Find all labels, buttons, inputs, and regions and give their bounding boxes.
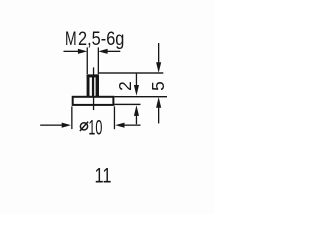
svg-text:2: 2 [115,81,135,91]
diameter dimension right tail [124,125,141,126]
dimension 5 upper arrowhead pointing down [156,62,161,73]
disc left extension line down [71,106,72,129]
stem left edge [87,74,90,96]
thread dimension left arrowhead [78,49,87,54]
svg-text:5: 5 [148,81,168,91]
thread dimension line right tail [107,51,120,52]
dimension 5 lower arrowhead pointing up [156,97,161,108]
extension line right of thread [98,47,99,74]
dimension 2 upper arrow tail [136,74,137,87]
thread dimension right arrowhead [98,49,107,54]
dimension 2 upper arrowhead pointing down [134,85,139,96]
centre axis line [93,67,94,110]
dimension 5 upper arrow tail [158,43,159,63]
stem right edge [96,74,99,96]
disc-top extension line to right [114,96,167,97]
stem-top extension line to right [99,72,163,73]
stem thread core line [92,77,94,97]
svg-text:2,5-6g: 2,5-6g [78,28,124,50]
svg-text:M: M [65,28,77,50]
dimension 5 lower arrow tail [158,106,159,123]
diameter symbol [80,123,87,130]
dimension 2 lower arrowhead pointing up [134,105,139,116]
extension line left of thread [87,47,88,74]
diameter dimension right arrowhead pointing left [115,123,124,128]
thread dimension line left tail [64,51,79,52]
diameter dimension left arrowhead pointing right [62,123,71,128]
diameter dimension left tail [40,125,62,126]
svg-text:10: 10 [88,115,102,139]
dimension 2 lower arrow tail [136,114,137,124]
svg-text:11: 11 [95,164,112,188]
disc Ø10 body [73,97,114,105]
stem top edge [87,74,99,77]
disc right extension line down [114,106,115,129]
disc-bottom extension line to right [114,104,140,105]
